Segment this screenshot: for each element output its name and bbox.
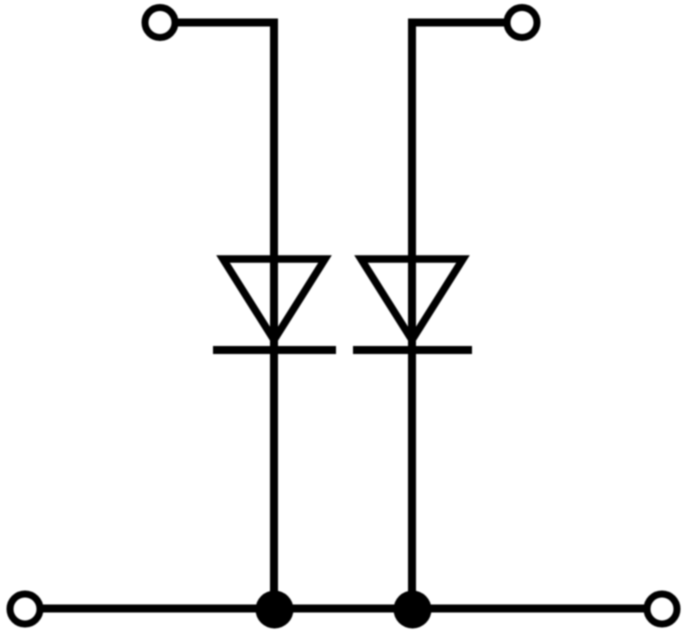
wire from T2 left then down through diode V2 to node B [412,23,507,605]
diode V1 cathode bar [213,346,336,354]
diode V2 cathode bar [353,346,472,354]
diode V1 triangle (anode, left branch) [223,259,325,340]
terminal T3 (bottom-left open circle) [10,594,40,624]
terminal T4 (bottom-right open circle) [647,594,677,624]
diode V2 triangle (anode, right branch) [361,259,463,340]
terminal T2 (top-right open circle) [507,8,537,38]
wire from T1 right then down through diode V1 to node A [175,23,274,605]
node A (junction dot on rail, left) [256,591,294,629]
node B (junction dot on rail, right) [394,591,432,629]
wire bottom rail from T3 to T4 [40,605,647,613]
terminal T1 (top-left open circle) [145,8,175,38]
